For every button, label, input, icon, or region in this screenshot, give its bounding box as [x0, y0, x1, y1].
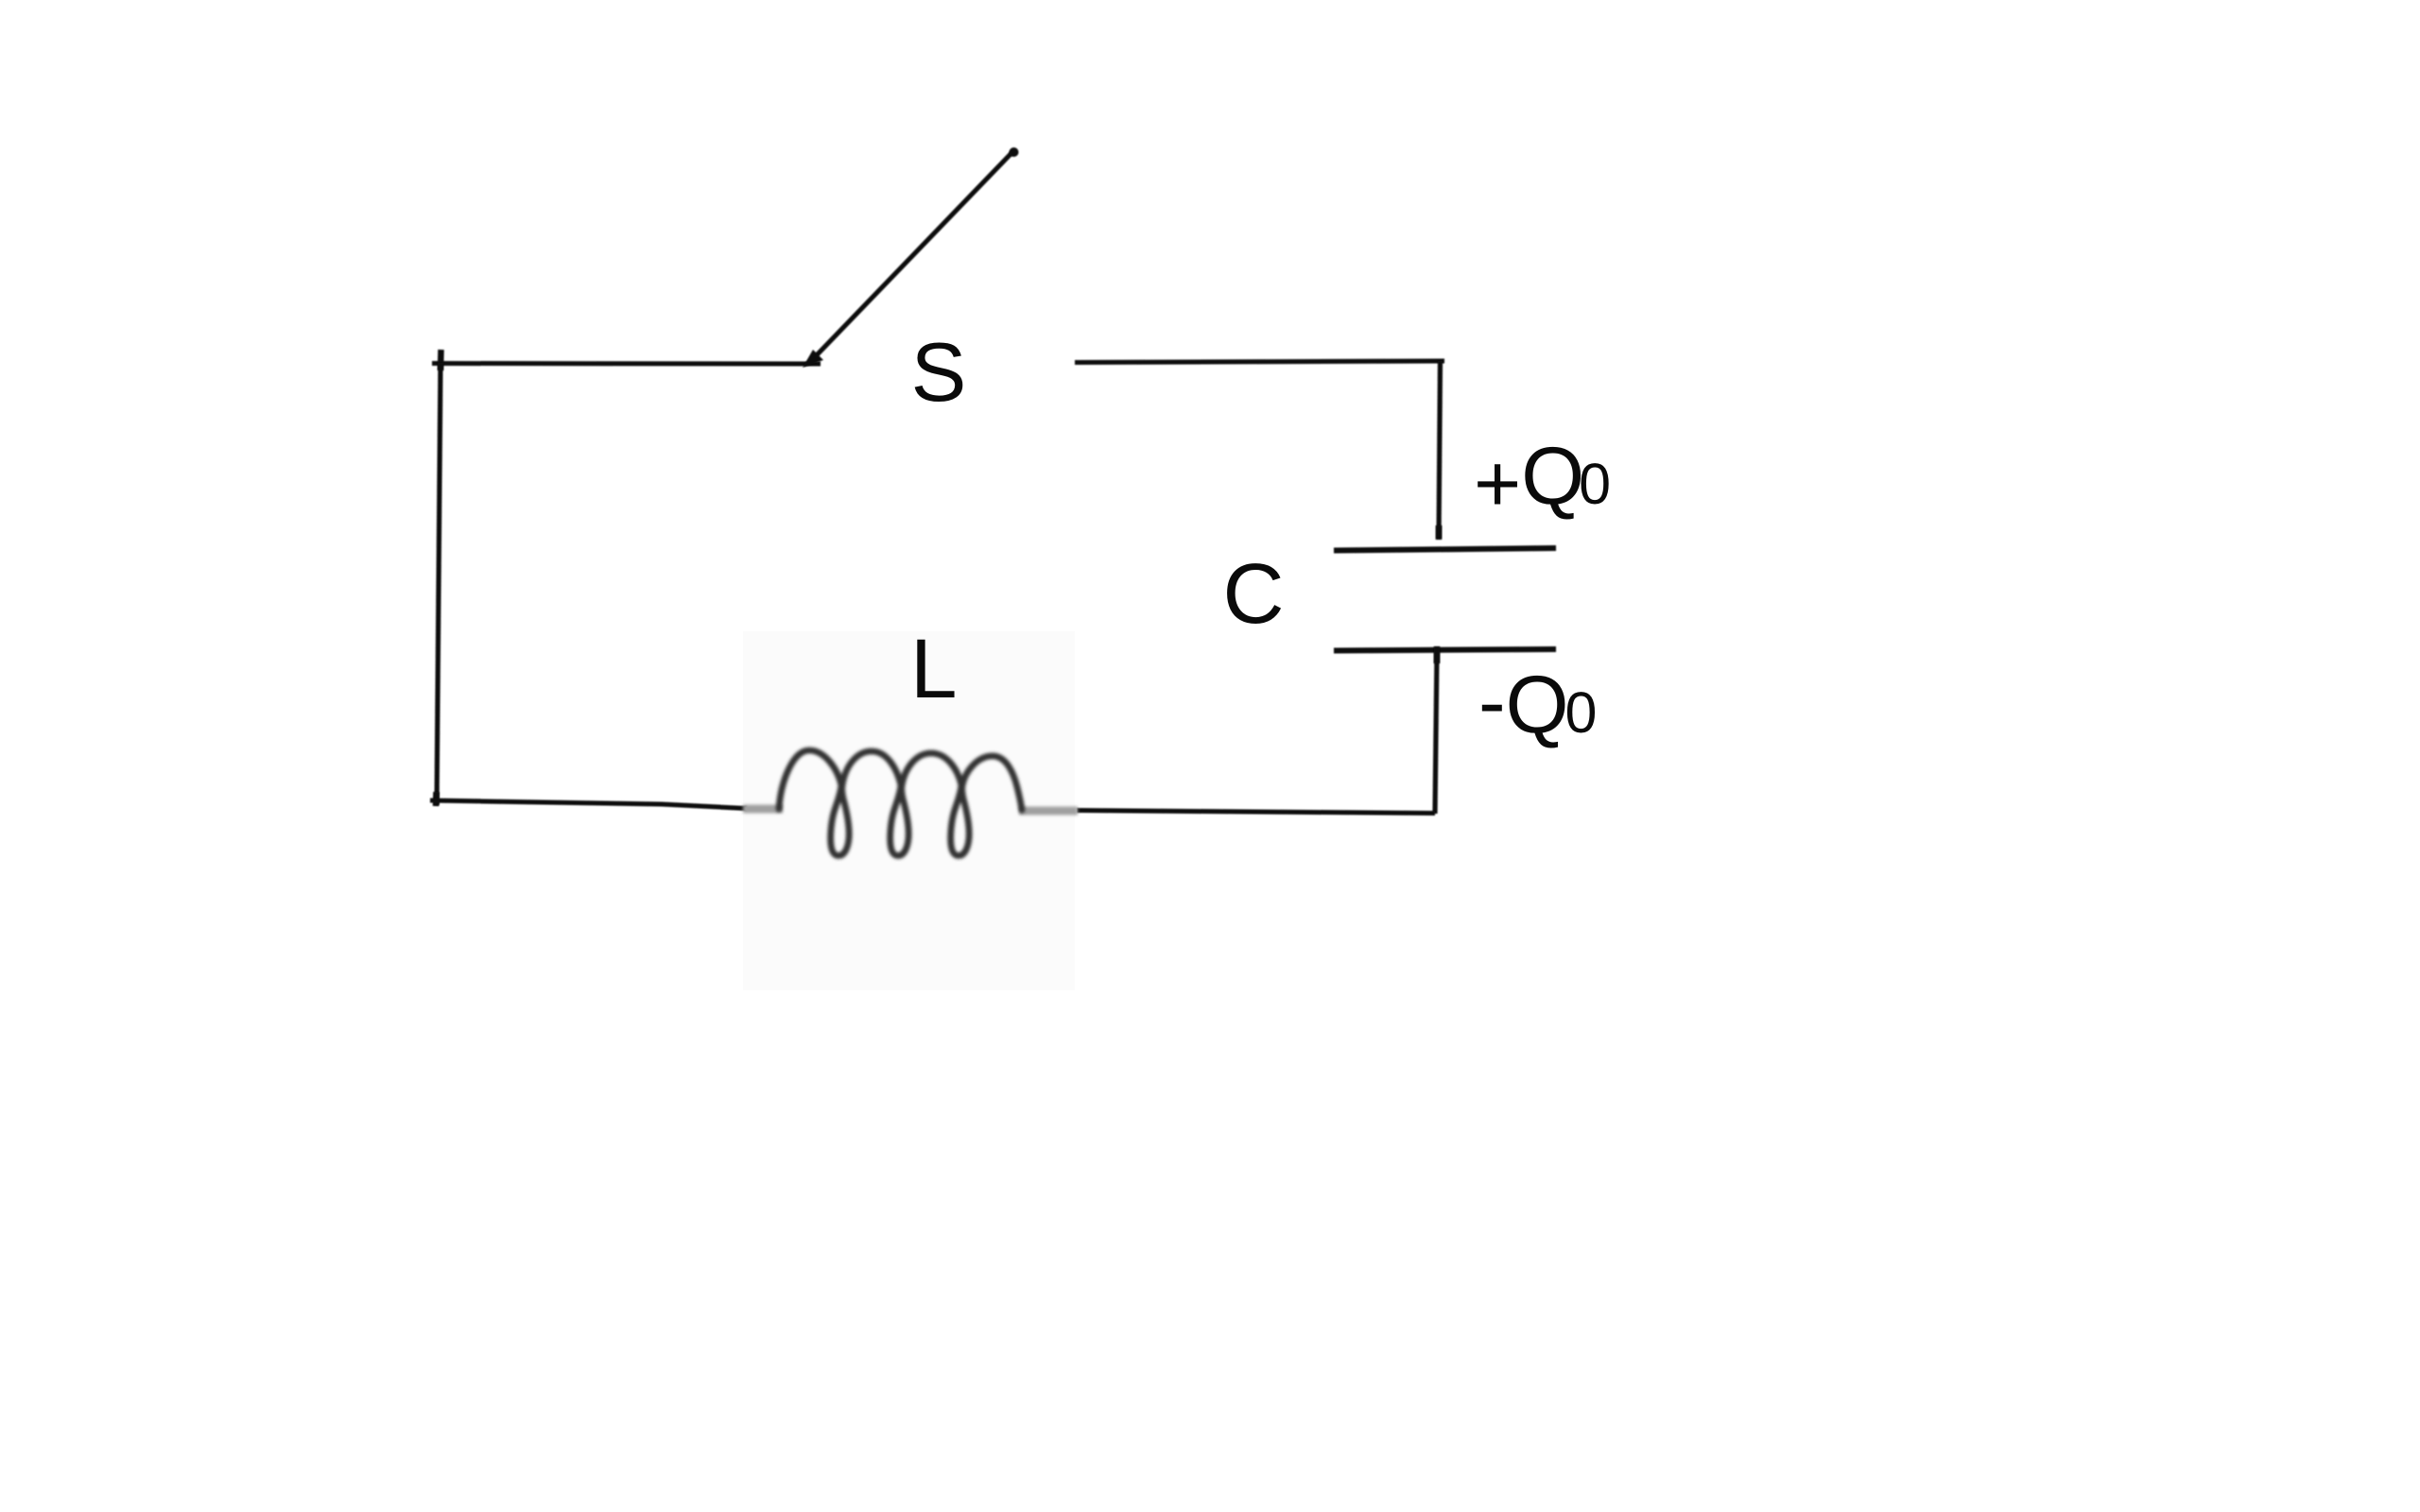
svg-text:L: L [910, 621, 958, 715]
switch pivot arrowhead [803, 350, 823, 368]
wire bottom-left horizontal [430, 800, 747, 809]
capacitor C top plate [1334, 548, 1556, 551]
wire left vertical [437, 363, 441, 805]
wire right vertical lower [1435, 652, 1437, 814]
inductor background scan patch [743, 631, 1075, 990]
svg-text:C: C [1223, 547, 1285, 642]
wire top-left horizontal [432, 361, 821, 367]
svg-text:-Q0: -Q0 [1478, 657, 1597, 750]
svg-text:+Q0: +Q0 [1474, 431, 1611, 529]
wire bottom-right horizontal [1077, 811, 1435, 814]
wire right vertical upper [1439, 361, 1441, 539]
switch S blade [809, 152, 1012, 363]
inductor L coil [779, 750, 1022, 856]
switch blade tip dot [1010, 147, 1019, 157]
node tick bottom-left corner [433, 792, 440, 806]
inductor L right gray lead stub [1019, 807, 1078, 816]
node tick capacitor bottom lead [1434, 646, 1441, 663]
svg-text:S: S [911, 325, 967, 419]
capacitor C bottom plate [1334, 649, 1556, 651]
node tick capacitor top lead [1436, 525, 1443, 540]
wire top-right horizontal [1075, 361, 1444, 363]
inductor L left gray lead stub [743, 805, 783, 814]
node tick top-left corner [438, 350, 444, 370]
